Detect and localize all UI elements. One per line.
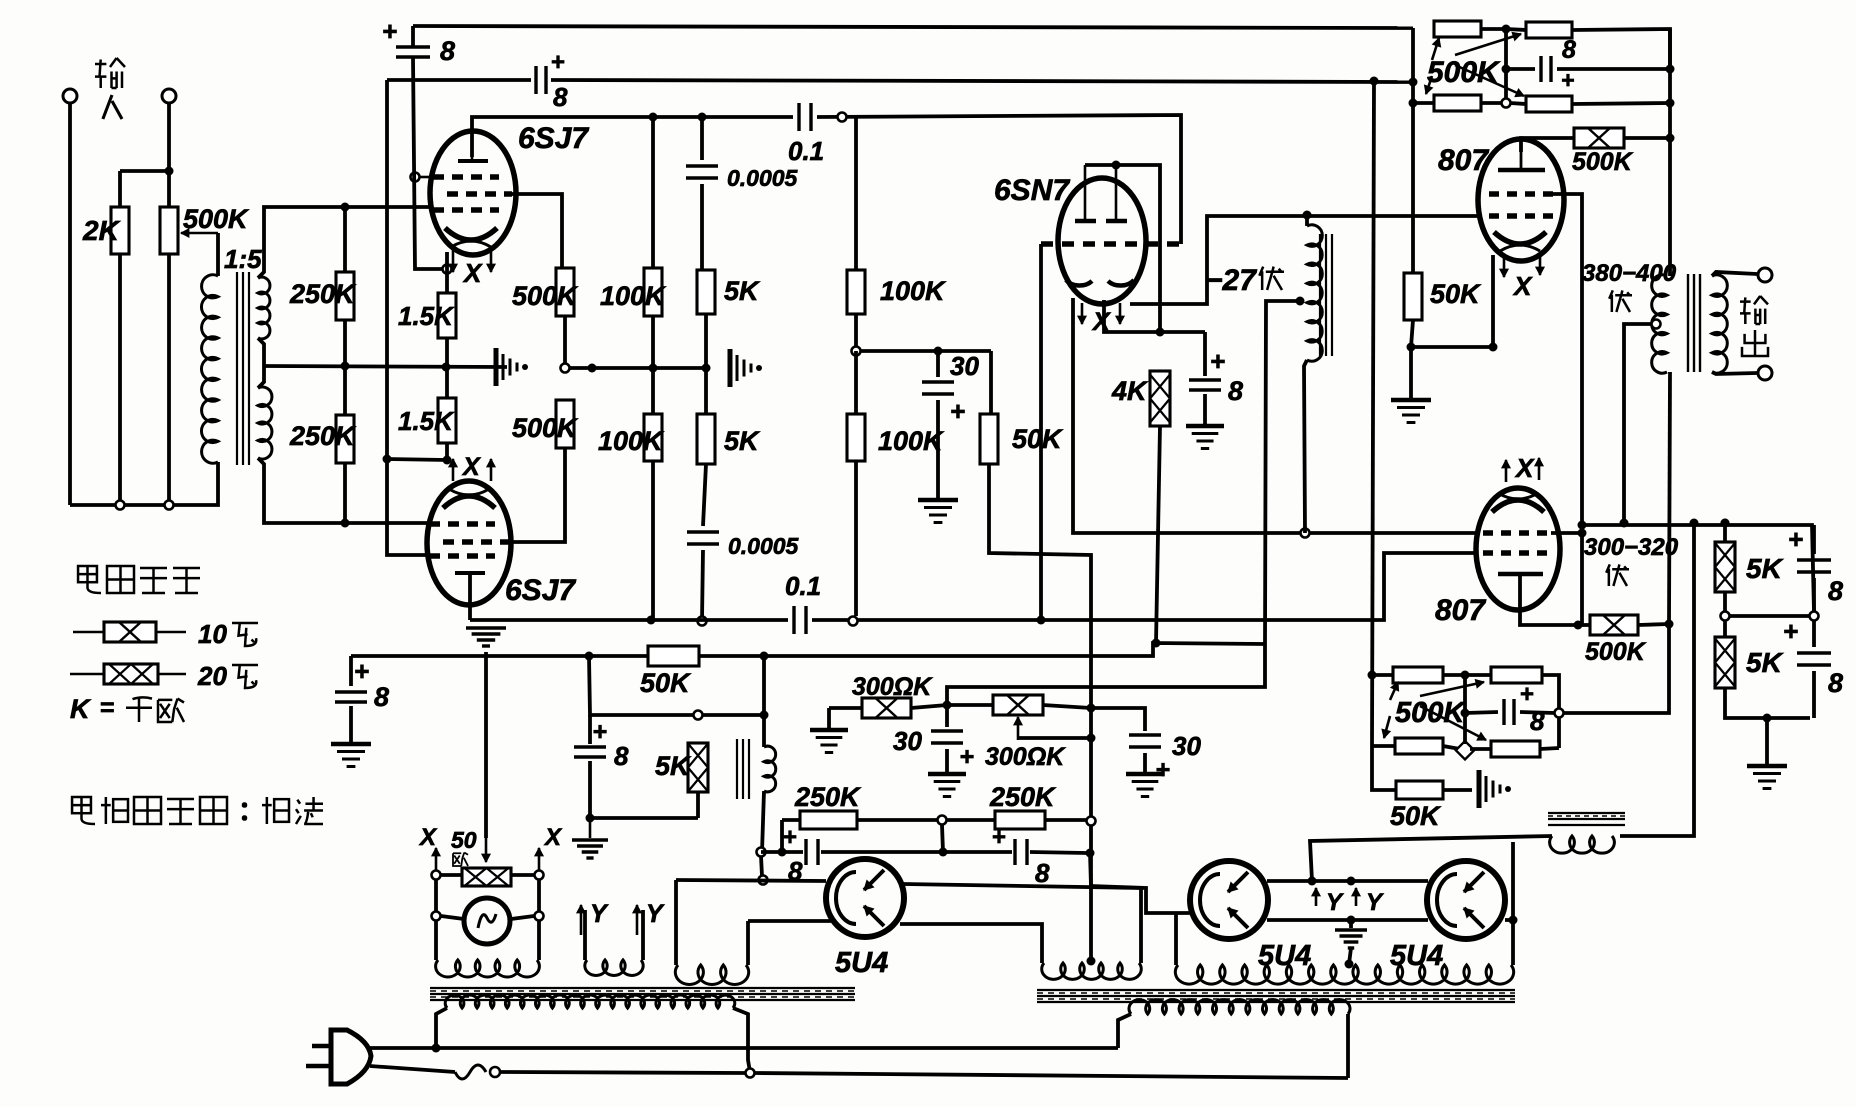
svg-text:+: +	[992, 824, 1006, 851]
wire 500K net left vertical	[1411, 28, 1415, 273]
6SJ7 V1 plate dashes row2	[447, 191, 512, 196]
svg-text:100K: 100K	[880, 276, 947, 306]
svg-text:Y: Y	[1366, 889, 1384, 916]
resistor 5K lower	[704, 368, 708, 414]
capacitor 8uF divider upper	[1812, 525, 1816, 554]
svg-text:5U4: 5U4	[835, 947, 888, 979]
resistor 500K V1 plate load	[556, 268, 574, 316]
svg-text:+: +	[960, 743, 975, 771]
6SN7 plate bars	[1075, 219, 1096, 224]
tube 807 V4 envelope	[1478, 139, 1564, 261]
svg-text:2K: 2K	[82, 215, 121, 246]
svg-text:X: X	[418, 824, 438, 851]
transformer core left	[430, 987, 855, 989]
wire 5U4 V3 left bottom	[748, 919, 831, 923]
wire 2K top	[120, 169, 169, 173]
input terminal 2	[162, 89, 176, 103]
resistor 250K upper grid	[341, 203, 350, 212]
svg-text:X: X	[1514, 453, 1535, 483]
filament winding W5 left lead	[1174, 913, 1178, 965]
wire secondary bottom	[258, 458, 429, 523]
svg-text:250K: 250K	[989, 782, 1057, 812]
svg-text:8: 8	[1828, 576, 1843, 606]
label 输出 (output)	[1740, 297, 1751, 324]
svg-text:+: +	[354, 656, 369, 686]
potentiometer 500K input volume	[160, 207, 178, 254]
HV winding W4	[1042, 963, 1142, 979]
wire B+ rail right	[1582, 525, 1814, 612]
wire choke to 5U4 mid	[1310, 836, 1552, 881]
resistor 4K bias (20W)	[1150, 371, 1170, 426]
svg-text:+: +	[1156, 756, 1171, 784]
6SN7 grid dashes	[1041, 241, 1181, 246]
resistor 300 ohm hum pot (10W)	[993, 695, 1043, 715]
5U4 V3 plate strokes	[864, 870, 884, 890]
wire to 30uF junction	[861, 349, 991, 353]
svg-text:500K: 500K	[1572, 148, 1634, 176]
capacitor 0.1 coupling upper	[799, 103, 811, 131]
wire between 5U4s top	[1267, 879, 1428, 883]
svg-text:30: 30	[950, 351, 979, 381]
capacitor 8uF series left	[806, 839, 818, 865]
svg-text:380−400: 380−400	[1582, 260, 1677, 287]
svg-text:5K: 5K	[724, 276, 761, 306]
svg-text:250K: 250K	[794, 782, 862, 812]
resistor 250K right	[946, 818, 995, 822]
wire rail4	[470, 618, 788, 622]
resistor 250K left	[782, 818, 800, 822]
svg-text:Y: Y	[646, 900, 665, 928]
resistor 500K fb A	[1434, 21, 1481, 37]
wire 6SN7 cathode2 to y533 line	[1073, 298, 1477, 533]
svg-text:20: 20	[197, 661, 227, 691]
capacitor 0.0005 lower	[703, 464, 706, 526]
tube 6SN7 envelope	[1058, 178, 1146, 304]
svg-text:300−320: 300−320	[1584, 534, 1679, 561]
ground triangle below	[589, 818, 592, 838]
output transformer core	[1687, 274, 1689, 372]
svg-text:8: 8	[1228, 376, 1243, 406]
wire feedback from coil tap	[947, 644, 1265, 705]
filament winding W3	[674, 880, 678, 965]
tube 5U4 V6 circle	[1190, 861, 1268, 939]
capacitor 30uF bias left	[945, 705, 949, 727]
svg-text:1.5K: 1.5K	[398, 406, 455, 436]
wire rail5 to coupling row	[589, 656, 694, 715]
wire divider mid	[1730, 614, 1810, 618]
svg-text:K: K	[70, 694, 92, 724]
ground chassis mid2	[728, 349, 733, 387]
hum pot wiper arrow	[1017, 717, 1020, 740]
capacitor 8uF lower network	[1465, 712, 1498, 713]
wire vertical x=388 long	[385, 80, 389, 459]
5U4 V7 filament arc	[1437, 874, 1457, 926]
svg-text:5K: 5K	[724, 426, 761, 456]
svg-text:5K: 5K	[655, 751, 692, 781]
svg-text:500K: 500K	[512, 413, 579, 443]
svg-text:1.5K: 1.5K	[398, 301, 455, 331]
HV primary winding right	[1129, 1000, 1350, 1014]
resistor 50K to chassis	[1372, 746, 1396, 790]
svg-text:8: 8	[1035, 858, 1050, 888]
filament winding W5	[1175, 965, 1513, 984]
heater winding W2 Y	[583, 910, 587, 960]
wire B+ down to choke	[1620, 523, 1694, 836]
capacitor 30uF decoupling	[936, 351, 940, 377]
wire 250K left drop	[780, 820, 784, 852]
wire 807 V5 plate rail down	[1559, 624, 1669, 713]
svg-text:+: +	[593, 718, 608, 746]
transformer T1 1:5 primary	[201, 275, 218, 463]
capacitor 8uF B+ top left	[411, 26, 415, 47]
transformer core right	[1037, 989, 1515, 991]
tube 5U4 V7 circle	[1427, 861, 1505, 939]
svg-text:10: 10	[198, 619, 227, 649]
resistor 2K	[118, 171, 122, 207]
wire x1374 long feedback vertical	[1372, 81, 1374, 746]
wire secondary center tap	[258, 338, 264, 366]
resistor 500K lower B	[1465, 673, 1491, 677]
807 V4 plate bar	[1520, 152, 1523, 170]
resistor 500K fb C	[1413, 101, 1434, 105]
wire mains top	[369, 1046, 1118, 1050]
svg-text:300ΩK: 300ΩK	[985, 743, 1066, 771]
output transformer secondary	[1712, 275, 1727, 373]
ground below 8uF rail5	[331, 742, 371, 747]
tube 6SJ7 V1 envelope	[430, 131, 516, 255]
wire secondary to terminals	[1712, 272, 1757, 276]
svg-text:+: +	[950, 396, 965, 426]
output transformer tap	[1652, 320, 1661, 329]
resistor 500K V2 plate load	[556, 400, 574, 448]
hum pot 50ohm X arrows	[432, 871, 441, 880]
svg-text:+: +	[1783, 616, 1798, 646]
capacitor 0.1 coupling lower	[794, 606, 806, 634]
5U4 V6 plate strokes	[1228, 872, 1248, 892]
svg-text:Y: Y	[590, 900, 609, 928]
legend capacitor unit uF	[72, 797, 91, 813]
svg-text:6SJ7: 6SJ7	[518, 122, 589, 155]
wire cathode junction row y460	[387, 459, 447, 460]
svg-text:100K: 100K	[600, 281, 667, 311]
svg-text:+: +	[783, 824, 797, 851]
Y arrows	[1315, 888, 1318, 906]
6SJ7 V1 grid dashes row3	[433, 207, 499, 212]
vertical mid of lower network	[1463, 675, 1467, 744]
807 V4 screen dashes	[1489, 191, 1553, 196]
wire V2 plate from 500K	[509, 448, 565, 542]
wire rail5 bias feed	[351, 643, 1265, 656]
svg-text:50K: 50K	[1390, 801, 1442, 831]
6SN7 cathode arcs	[1066, 280, 1092, 286]
wire V1 screen drop x=413	[413, 57, 443, 269]
resistor 1.5K V1 cathode	[438, 293, 456, 338]
capacitor 8uF mid-bottom	[588, 715, 592, 744]
svg-text:+: +	[1210, 346, 1225, 376]
6SN7 plate leads to bracket	[1084, 165, 1087, 221]
svg-text:500K: 500K	[1585, 638, 1647, 666]
807 V5 cathode arc top	[1492, 500, 1544, 512]
legend 10W resistor	[73, 631, 104, 634]
wire fb mid vertical	[1504, 29, 1508, 103]
5U4 V6 filament arc	[1200, 874, 1220, 926]
6SJ7 V2 cathode arc top	[443, 496, 495, 508]
807 V5 screen dashes	[1483, 530, 1551, 535]
ground below divider	[1765, 718, 1769, 764]
ground below 30uF bias left	[928, 772, 966, 777]
resistor 5K bias (20W)	[688, 743, 708, 792]
wire B+ rail 1 top	[413, 26, 1413, 28]
tube 807 V5 envelope	[1476, 488, 1560, 610]
resistor 250K lower grid	[343, 366, 347, 415]
resistor 500K lower A	[1372, 673, 1393, 677]
wire 807 V5 plate out	[1520, 574, 1578, 625]
wire input right vertical	[167, 103, 171, 207]
svg-text:X: X	[1512, 271, 1533, 301]
807 V5 grid dashes	[1483, 550, 1551, 555]
wire input left vertical	[68, 103, 72, 505]
W4 center tap	[1087, 957, 1096, 966]
svg-text:50K: 50K	[1430, 279, 1482, 309]
capacitor 0.0005 upper	[700, 117, 704, 160]
resistor 50ohm grid stopper (10W) upper	[1521, 138, 1574, 152]
resistor 5K upper	[697, 270, 715, 314]
svg-text:5K: 5K	[1746, 553, 1784, 584]
ground triangle top with wiper arrow	[466, 626, 506, 629]
tube 5U4 V3 circle	[826, 859, 904, 937]
svg-text:：: ：	[238, 796, 264, 826]
svg-text:+: +	[382, 16, 397, 46]
6SJ7 V2 dashes row1	[429, 521, 495, 526]
svg-text:250K: 250K	[289, 421, 357, 451]
transformer T1 secondary upper	[258, 277, 270, 339]
wire 5U4 left entry	[1090, 853, 1091, 886]
svg-text:50K: 50K	[1012, 424, 1064, 454]
wire choke tap to rail5	[1296, 297, 1305, 306]
wire 6SN7 cathode1 to bias network	[1104, 300, 1205, 332]
ground left of 300ohm	[827, 708, 831, 728]
svg-text:250K: 250K	[289, 279, 357, 309]
wire rail2 with 8uF cap	[387, 78, 531, 82]
ground chassis mid-left	[442, 363, 451, 372]
pilot lamp	[441, 916, 464, 919]
resistor 5K divider lower (20W)	[1723, 620, 1727, 637]
svg-text:8: 8	[1562, 36, 1576, 64]
resistor 100K column A upper	[651, 117, 655, 268]
wire V1 cathode to 1.5K	[445, 252, 449, 293]
wire 6SN7 grid1 down to rail4	[1039, 244, 1043, 620]
resistor 50K horizontal on rail5	[648, 646, 699, 666]
capacitor 8uF bias	[1203, 332, 1207, 376]
ground below 8uF bias	[1186, 424, 1224, 429]
V2 heater arrows X up	[452, 459, 455, 481]
AC plug	[331, 1030, 371, 1084]
807 V4 cathode arc	[1494, 232, 1546, 244]
svg-text:6SN7: 6SN7	[994, 174, 1070, 207]
wire coil bottom down	[762, 791, 764, 852]
wire V1 plate to 500K load	[512, 194, 562, 268]
svg-text:X: X	[543, 824, 563, 851]
svg-text:50: 50	[451, 827, 477, 853]
6SN7 heater arrows X	[1081, 303, 1084, 324]
ground below 30uF	[918, 498, 958, 503]
transformer T1 core	[236, 272, 238, 465]
resistor 100K column B upper	[854, 117, 858, 270]
6SJ7 V2 grid bar bottom	[455, 571, 485, 575]
wire between 5U4s bottom	[1267, 918, 1428, 922]
wire secondary top to grid wire	[258, 207, 433, 278]
svg-text:8: 8	[1530, 706, 1545, 736]
wire 5U4 V3 right bottom	[900, 924, 1042, 963]
mains primary winding left	[445, 995, 735, 1008]
driver coil core lines	[736, 739, 738, 799]
svg-text:30: 30	[893, 726, 922, 756]
wire 6SN7 plate bracket	[1085, 165, 1160, 332]
svg-text:+: +	[1788, 524, 1803, 554]
svg-text:4K: 4K	[1111, 376, 1149, 406]
inductor grid choke	[1307, 225, 1322, 361]
V1 heater arrows X	[452, 250, 455, 272]
input terminal upper-left	[63, 89, 77, 103]
capacitor 8uF series right	[1015, 839, 1027, 865]
wire 5U4 V7 right bracket	[1505, 918, 1513, 922]
legend 20W resistor	[70, 673, 104, 676]
ground chassis lower right	[1477, 770, 1482, 808]
wire mains bottom with fuse	[370, 1066, 455, 1072]
wire 807 V4 cathode down	[1491, 255, 1495, 347]
heater winding W1 6SJ7	[434, 920, 438, 960]
resistor 500K lower D	[1470, 747, 1491, 751]
transformer T1 secondary lower	[258, 387, 272, 459]
wire input bottom	[70, 462, 218, 505]
ground triangle between 5U4	[1349, 920, 1353, 928]
svg-text:8: 8	[553, 82, 568, 112]
svg-text:8: 8	[440, 36, 455, 66]
svg-text:=: =	[100, 694, 115, 722]
6SJ7 V1 grid cap bar	[458, 159, 488, 163]
choke filter winding	[1550, 836, 1615, 853]
output transformer primary	[1668, 273, 1672, 276]
ground below 30uF right	[1126, 772, 1164, 777]
resistor 100K column A lower	[651, 368, 655, 414]
wire 4K bottom to rail5	[1156, 426, 1160, 643]
wire -27V grid feed	[1130, 216, 1480, 304]
807 V4 grid dashes	[1489, 213, 1553, 218]
svg-text:X: X	[462, 258, 483, 288]
wire 807 V4 screen to right	[1553, 194, 1582, 625]
svg-text:1:5: 1:5	[224, 244, 262, 274]
807 V5 heater arrows X up	[1505, 460, 1508, 482]
6SJ7 V1 cathode arc	[445, 228, 497, 240]
svg-text:+: +	[1520, 681, 1534, 708]
resistor 500K fb B	[1506, 29, 1526, 30]
choke filter core	[1548, 812, 1625, 814]
svg-text:Y: Y	[1326, 889, 1344, 916]
svg-text:30: 30	[1172, 731, 1201, 761]
capacitor 8uF rail5 left	[349, 656, 353, 686]
6SJ7 V2 dashes row3	[429, 553, 495, 558]
wire 8uF/5K bottom tie	[590, 816, 698, 820]
resistor 500K fb D	[1510, 103, 1526, 104]
svg-text:0.0005: 0.0005	[727, 165, 799, 191]
capacitor 30uF bias right	[1091, 708, 1145, 731]
svg-text:5K: 5K	[1746, 647, 1784, 678]
svg-text:+: +	[1561, 67, 1574, 93]
5U4 V3 filament arc	[836, 872, 856, 924]
wire 50K bottom to grid line	[989, 464, 1091, 961]
svg-text:0.0005: 0.0005	[728, 533, 800, 559]
svg-text:50K: 50K	[640, 668, 692, 698]
svg-text:100K: 100K	[878, 426, 945, 456]
svg-text:807: 807	[1438, 144, 1489, 177]
driver coil winding	[764, 746, 776, 792]
6SJ7 V1 grid dashes row1	[433, 174, 499, 179]
W5 center tap to ground	[1345, 960, 1354, 969]
wire 5U4 V3 right top	[904, 884, 1141, 963]
wire V2 grid-cap to rail4	[468, 573, 472, 620]
resistor 5K divider upper (20W)	[1723, 523, 1727, 542]
resistor 500K lower C	[1372, 744, 1395, 748]
svg-text:300ΩK: 300ΩK	[852, 673, 933, 701]
807 V5 plate bar	[1498, 572, 1543, 577]
label 输入 (input)	[95, 60, 106, 89]
807 V4 heater arrows X	[1503, 255, 1506, 277]
svg-text:−27: −27	[1205, 264, 1257, 297]
svg-text:X: X	[461, 453, 481, 481]
svg-text:8: 8	[374, 682, 389, 712]
resistor 50ohm (10W) lower	[1578, 623, 1590, 627]
svg-text:8: 8	[614, 741, 629, 771]
tube 6SJ7 V2 envelope	[427, 481, 511, 605]
resistor 50K fb divider	[1411, 271, 1415, 275]
svg-text:0.1: 0.1	[785, 571, 821, 601]
svg-text:500K: 500K	[512, 281, 579, 311]
wire rail3 grid-cap rail	[472, 117, 793, 157]
resistor 100K column B lower	[854, 351, 858, 414]
svg-text:+: +	[551, 49, 565, 76]
ground below 50K	[1409, 347, 1413, 398]
resistor 300 ohm left (10W)	[943, 701, 952, 710]
wire mid rail segment2	[570, 366, 706, 370]
wire 500K1 bottom to mid rail	[563, 316, 567, 368]
legend resistor marks title	[78, 566, 97, 582]
wire fb right vertical	[1668, 29, 1672, 273]
choke core lines	[1319, 234, 1321, 356]
wire 5U4 V3 left top	[676, 880, 826, 881]
5U4 V7 plate strokes	[1464, 872, 1484, 892]
wiper arrow of 500K pot	[181, 232, 218, 235]
6SJ7 V2 dashes row2 plate	[443, 539, 509, 544]
svg-text:8: 8	[1828, 668, 1843, 698]
svg-text:6SJ7: 6SJ7	[505, 574, 576, 607]
wire 8uF row y852	[761, 850, 803, 854]
svg-text:0.1: 0.1	[788, 136, 824, 166]
wire B+ to divider	[1721, 519, 1730, 528]
6SJ7 V1 screen terminal circle	[411, 173, 420, 182]
capacitor 8uF fb	[1506, 67, 1535, 71]
wire choke bottom to grid line y533	[1304, 360, 1307, 533]
svg-text:807: 807	[1435, 594, 1486, 627]
capacitor 8uF divider lower	[1812, 620, 1816, 647]
resistor 50K vertical	[989, 351, 993, 414]
resistor 1.5K V2 cathode	[445, 367, 449, 398]
svg-text:500K: 500K	[183, 204, 250, 234]
resistor 50ohm hum (20W)	[441, 873, 462, 877]
svg-text:100K: 100K	[598, 426, 665, 456]
svg-text:500K: 500K	[1427, 56, 1501, 89]
